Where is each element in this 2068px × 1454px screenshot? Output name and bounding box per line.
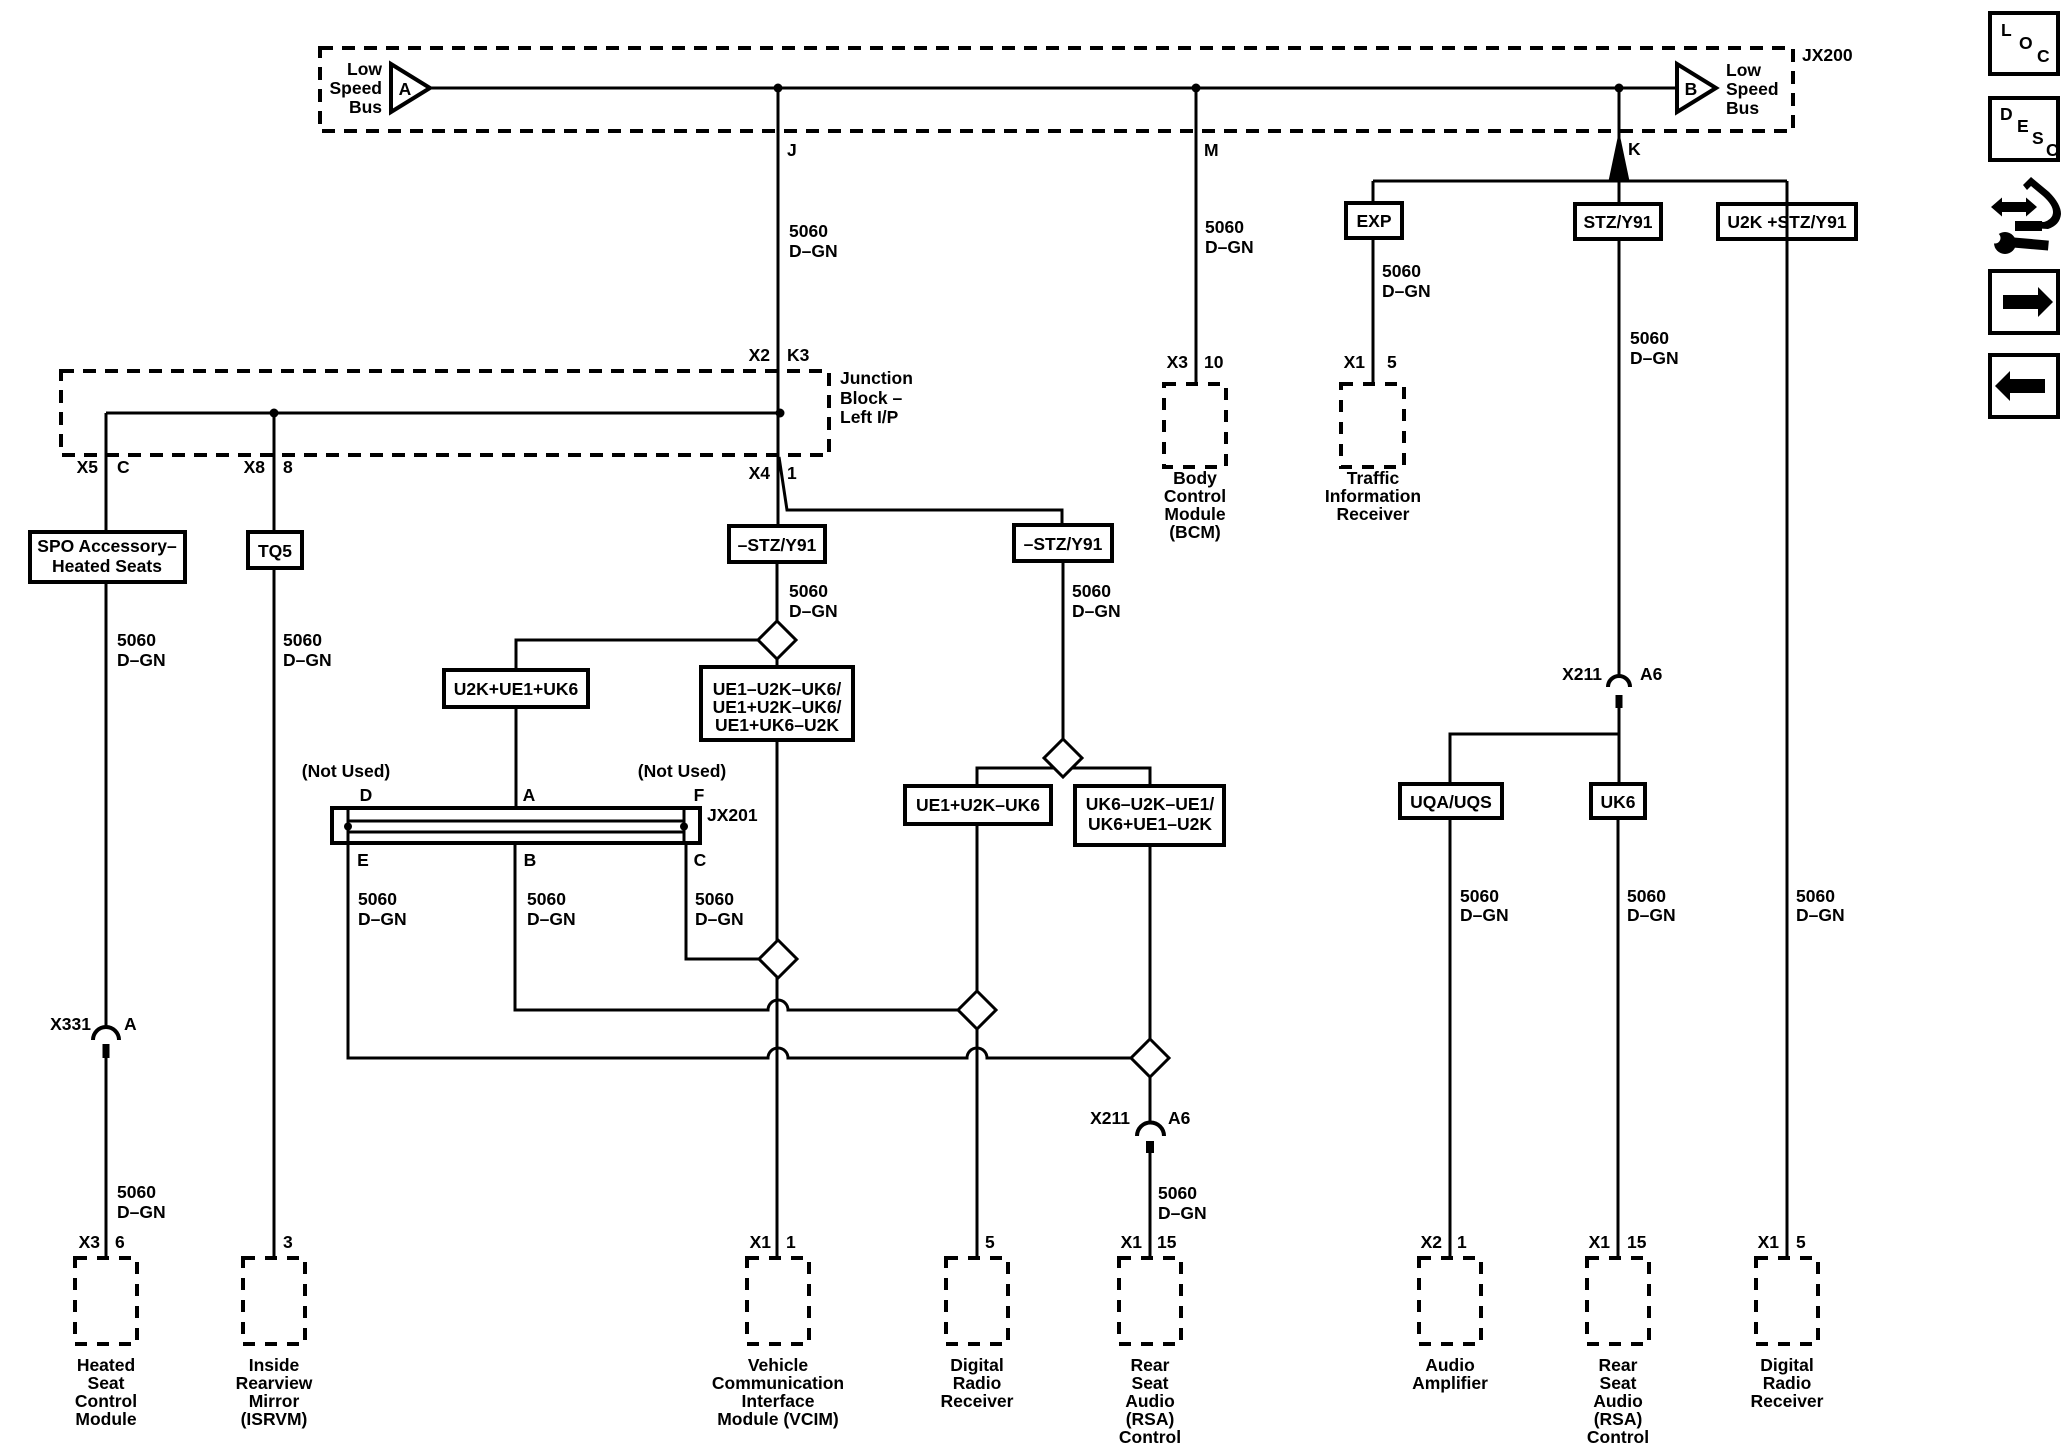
- svg-text:C: C: [2037, 46, 2050, 66]
- module box Heated Seat Control Module: [75, 1258, 137, 1344]
- svg-text:D–GN: D–GN: [1460, 905, 1509, 925]
- connector label box UE1-U2K-UK6 / UE1+U2K-UK6 / UE1+UK6-U2K: [701, 667, 853, 740]
- svg-text:C: C: [117, 457, 130, 477]
- svg-text:D–GN: D–GN: [283, 650, 332, 670]
- svg-text:D–GN: D–GN: [1796, 905, 1845, 925]
- module box Traffic Information Receiver: [1341, 384, 1404, 467]
- svg-text:(RSA): (RSA): [1594, 1409, 1643, 1429]
- wire RSA1 upper drop: [1149, 845, 1152, 1122]
- svg-text:D: D: [360, 785, 373, 805]
- svg-text:X4: X4: [749, 463, 771, 483]
- svg-text:M: M: [1204, 140, 1219, 160]
- svg-text:UE1+U2K–UK6: UE1+U2K–UK6: [916, 795, 1040, 815]
- wire DRR1 drop: [976, 824, 979, 1258]
- inline connector X211/A6 (K line): [1608, 676, 1630, 687]
- wire from right STZ box to splice diamond S2: [1062, 561, 1065, 739]
- svg-text:(Not Used): (Not Used): [302, 761, 390, 781]
- svg-text:5060: 5060: [1627, 886, 1666, 906]
- svg-text:Seat: Seat: [1600, 1373, 1637, 1393]
- wire SPO lower drop: [105, 582, 108, 1027]
- svg-text:A: A: [399, 79, 412, 99]
- wire K branch horizontal: [1373, 180, 1787, 183]
- svg-text:X3: X3: [79, 1232, 101, 1252]
- icon diagnostic bent outline: [2023, 177, 2061, 229]
- module box Digital Radio Receiver (center): [946, 1258, 1008, 1344]
- connector label box U2K +STZ/Y91: [1718, 204, 1856, 239]
- wire B from JX201 to splice diamond S4 with hop: [515, 843, 958, 1010]
- wire TQ5 lower drop to ISRVM: [273, 568, 276, 1258]
- svg-text:Radio: Radio: [1763, 1373, 1812, 1393]
- svg-text:Control: Control: [1587, 1427, 1649, 1447]
- splice diamond S3: [759, 940, 797, 978]
- wire UK6 drop to RSA2: [1617, 818, 1620, 1258]
- svg-text:5060: 5060: [789, 221, 828, 241]
- svg-text:Body: Body: [1173, 468, 1217, 488]
- connector label box UQA/UQS: [1400, 784, 1502, 818]
- wire from left STZ box to splice diamond: [776, 562, 779, 621]
- svg-text:Speed: Speed: [329, 78, 382, 98]
- connector label box TQ5: [248, 532, 302, 568]
- svg-text:X1: X1: [1121, 1232, 1143, 1252]
- wire J drop from bus to junction block: [777, 88, 780, 526]
- svg-text:(Not Used): (Not Used): [638, 761, 726, 781]
- svg-text:D: D: [2000, 104, 2013, 124]
- svg-text:Seat: Seat: [1132, 1373, 1169, 1393]
- connector label box U2K+UE1+UK6: [444, 670, 588, 707]
- svg-text:B: B: [1685, 79, 1698, 99]
- svg-text:S: S: [2032, 128, 2044, 148]
- splice diamond S2: [1044, 739, 1082, 777]
- svg-text:Low: Low: [1726, 60, 1761, 80]
- wire A drop from U2K+UE1+UK6 into JX201: [515, 707, 518, 808]
- svg-text:Radio: Radio: [953, 1373, 1002, 1393]
- module box Digital Radio Receiver (right): [1756, 1258, 1818, 1344]
- module box Rear Seat Audio Control (center): [1119, 1258, 1181, 1344]
- svg-text:5060: 5060: [1796, 886, 1835, 906]
- wire X5 drop to SPO box: [105, 413, 108, 532]
- svg-text:JX201: JX201: [707, 805, 758, 825]
- wire RSA1 lower drop: [1149, 1153, 1152, 1258]
- icon back arrow box: [1990, 355, 2058, 417]
- svg-text:X211: X211: [1090, 1108, 1130, 1128]
- module box Audio Amplifier: [1419, 1258, 1481, 1344]
- svg-text:X5: X5: [77, 457, 99, 477]
- svg-text:8: 8: [283, 457, 293, 477]
- svg-text:Heated Seats: Heated Seats: [52, 556, 162, 576]
- svg-text:Interface: Interface: [742, 1391, 815, 1411]
- svg-text:TQ5: TQ5: [258, 541, 292, 561]
- svg-text:X2: X2: [749, 345, 771, 365]
- module box Vehicle Communication Interface Module: [747, 1258, 809, 1344]
- svg-text:A: A: [124, 1014, 137, 1034]
- svg-text:JX200: JX200: [1802, 45, 1853, 65]
- wire U2K drop to DRR2: [1786, 181, 1789, 1258]
- svg-text:D–GN: D–GN: [117, 1202, 166, 1222]
- junction dot J tap: [776, 409, 785, 418]
- svg-text:X8: X8: [244, 457, 266, 477]
- svg-text:(ISRVM): (ISRVM): [241, 1409, 308, 1429]
- svg-text:EXP: EXP: [1356, 211, 1391, 231]
- svg-text:C: C: [694, 850, 707, 870]
- svg-text:5060: 5060: [695, 889, 734, 909]
- svg-text:Rear: Rear: [1599, 1355, 1638, 1375]
- svg-text:5060: 5060: [358, 889, 397, 909]
- svg-text:6: 6: [115, 1232, 125, 1252]
- svg-text:Receiver: Receiver: [1337, 504, 1410, 524]
- svg-text:E: E: [2017, 116, 2029, 136]
- svg-text:UK6: UK6: [1600, 792, 1635, 812]
- inline connector X331/A: [93, 1027, 119, 1040]
- svg-text:X1: X1: [750, 1232, 772, 1252]
- svg-text:5: 5: [1796, 1232, 1806, 1252]
- wire low speed bus: [430, 87, 1677, 90]
- svg-text:5060: 5060: [1630, 328, 1669, 348]
- wire M drop from bus to BCM: [1195, 88, 1198, 384]
- svg-text:Module: Module: [75, 1409, 137, 1429]
- svg-text:D–GN: D–GN: [1630, 348, 1679, 368]
- wire UQA drop to Audio Amplifier: [1449, 818, 1452, 1258]
- svg-text:Inside: Inside: [249, 1355, 300, 1375]
- splice diamond S5: [1131, 1039, 1169, 1077]
- wire junction block internal bus: [106, 412, 780, 415]
- inline connector X211/A6 (RSA): [1137, 1123, 1164, 1137]
- wire K drop from bus through arrow: [1618, 88, 1621, 676]
- svg-text:SPO Accessory–: SPO Accessory–: [37, 536, 177, 556]
- svg-text:UK6+UE1–U2K: UK6+UE1–U2K: [1088, 814, 1212, 834]
- svg-text:X1: X1: [1344, 352, 1366, 372]
- svg-text:–STZ/Y91: –STZ/Y91: [738, 535, 817, 555]
- junction dot K on bus: [1615, 84, 1624, 93]
- svg-text:D–GN: D–GN: [695, 909, 744, 929]
- svg-text:X211: X211: [1562, 664, 1602, 684]
- wire K lower drop to UK6: [1618, 708, 1621, 784]
- svg-text:Speed: Speed: [1726, 79, 1779, 99]
- svg-text:5060: 5060: [789, 581, 828, 601]
- svg-text:K: K: [1628, 139, 1641, 159]
- svg-text:Rear: Rear: [1131, 1355, 1170, 1375]
- svg-text:Vehicle: Vehicle: [748, 1355, 809, 1375]
- svg-text:Amplifier: Amplifier: [1412, 1373, 1488, 1393]
- wire branch to U2K+UE1+UK6: [516, 640, 758, 671]
- svg-text:D–GN: D–GN: [1205, 237, 1254, 257]
- connector label box EXP: [1346, 203, 1402, 238]
- icon forward arrow box: [1990, 271, 2058, 333]
- svg-text:Audio: Audio: [1425, 1355, 1475, 1375]
- svg-text:Communication: Communication: [712, 1373, 844, 1393]
- svg-text:UE1+U2K–UK6/: UE1+U2K–UK6/: [713, 697, 842, 717]
- svg-text:A6: A6: [1640, 664, 1663, 684]
- svg-text:UE1+UK6–U2K: UE1+UK6–U2K: [715, 715, 839, 735]
- module box Body Control Module: [1164, 384, 1226, 467]
- connector label box UK6-U2K-UE1 / UK6+UE1-U2K: [1075, 786, 1224, 845]
- icon LOC box: [1990, 13, 2058, 74]
- svg-text:Digital: Digital: [1760, 1355, 1813, 1375]
- junction dot JX201 pin F/C: [680, 823, 688, 831]
- svg-text:K3: K3: [787, 345, 810, 365]
- svg-text:10: 10: [1204, 352, 1224, 372]
- svg-text:5: 5: [985, 1232, 995, 1252]
- junction dot JX201 pin D/E: [344, 823, 352, 831]
- svg-text:3: 3: [283, 1232, 293, 1252]
- svg-text:5060: 5060: [283, 630, 322, 650]
- svg-text:5060: 5060: [117, 1182, 156, 1202]
- svg-text:U2K+UE1+UK6: U2K+UE1+UK6: [454, 679, 579, 699]
- splice diamond S4: [958, 991, 996, 1029]
- svg-text:A: A: [523, 785, 536, 805]
- svg-text:Traffic: Traffic: [1347, 468, 1400, 488]
- connector JX201 body: [332, 808, 700, 843]
- svg-text:Module (VCIM): Module (VCIM): [717, 1409, 839, 1429]
- svg-text:Bus: Bus: [349, 97, 382, 117]
- svg-text:D–GN: D–GN: [1627, 905, 1676, 925]
- icon diagnostic double arrow: [1991, 198, 2037, 217]
- icon DESC box: [1990, 98, 2058, 160]
- svg-text:Control: Control: [1119, 1427, 1181, 1447]
- svg-text:UK6–U2K–UE1/: UK6–U2K–UE1/: [1086, 794, 1215, 814]
- svg-text:5060: 5060: [117, 630, 156, 650]
- wire EXP drop to receiver: [1372, 238, 1375, 384]
- svg-text:X331: X331: [50, 1014, 91, 1034]
- svg-text:Control: Control: [75, 1391, 137, 1411]
- svg-text:X3: X3: [1167, 352, 1189, 372]
- wire heated seat drop: [105, 1058, 108, 1258]
- icon diagnostic bar: [2015, 221, 2042, 231]
- svg-text:(BCM): (BCM): [1169, 522, 1221, 542]
- svg-text:STZ/Y91: STZ/Y91: [1583, 212, 1652, 232]
- svg-text:Information: Information: [1325, 486, 1421, 506]
- svg-text:Rearview: Rearview: [236, 1373, 313, 1393]
- svg-text:5060: 5060: [1205, 217, 1244, 237]
- svg-text:Seat: Seat: [88, 1373, 125, 1393]
- svg-text:Left I/P: Left I/P: [840, 407, 899, 427]
- svg-text:L: L: [2001, 20, 2012, 40]
- svg-text:X1: X1: [1589, 1232, 1611, 1252]
- wire E from JX201 to splice diamond S5 with hops: [348, 843, 1131, 1058]
- svg-text:5060: 5060: [1072, 581, 1111, 601]
- svg-text:F: F: [694, 785, 705, 805]
- arrow into bus at K: [1609, 131, 1630, 181]
- connector label box UK6: [1591, 784, 1645, 818]
- svg-text:X2: X2: [1421, 1232, 1443, 1252]
- wire EXP stub: [1372, 181, 1375, 203]
- wire X4 branch to right -STZ/Y91: [779, 457, 1062, 525]
- splice diamond S1: [758, 621, 796, 659]
- connector label box -STZ/Y91 (right): [1014, 525, 1112, 561]
- wire S2 right branch: [1072, 768, 1150, 786]
- connector label box -STZ/Y91 (left): [729, 526, 825, 562]
- svg-text:J: J: [787, 140, 797, 160]
- svg-text:Mirror: Mirror: [249, 1391, 300, 1411]
- junction block left I/P dashed box: [61, 371, 829, 455]
- svg-text:Control: Control: [1164, 486, 1226, 506]
- svg-text:Junction: Junction: [840, 368, 913, 388]
- svg-text:B: B: [524, 850, 537, 870]
- svg-text:Block –: Block –: [840, 388, 903, 408]
- wire VCIM main drop: [776, 740, 779, 1258]
- svg-text:–STZ/Y91: –STZ/Y91: [1024, 534, 1103, 554]
- svg-text:Module: Module: [1164, 504, 1226, 524]
- svg-text:5060: 5060: [1382, 261, 1421, 281]
- svg-text:15: 15: [1157, 1232, 1177, 1252]
- svg-text:D–GN: D–GN: [1382, 281, 1431, 301]
- junction dot X8 tap: [270, 409, 279, 418]
- svg-text:O: O: [2019, 33, 2033, 53]
- svg-text:5060: 5060: [527, 889, 566, 909]
- svg-text:Audio: Audio: [1125, 1391, 1175, 1411]
- svg-text:D–GN: D–GN: [1072, 601, 1121, 621]
- svg-text:A6: A6: [1168, 1108, 1191, 1128]
- icon wrench: [1990, 232, 2049, 254]
- JX200 low speed bus dashed box: [320, 48, 1793, 131]
- svg-text:Audio: Audio: [1593, 1391, 1643, 1411]
- junction dot J on bus: [774, 84, 783, 93]
- svg-text:D–GN: D–GN: [789, 601, 838, 621]
- svg-text:Low: Low: [347, 59, 382, 79]
- svg-text:5060: 5060: [1460, 886, 1499, 906]
- node A bus driver triangle: [391, 64, 430, 112]
- wire C from JX201 to splice diamond S3: [686, 843, 759, 959]
- svg-text:UQA/UQS: UQA/UQS: [1410, 792, 1492, 812]
- svg-text:Receiver: Receiver: [941, 1391, 1014, 1411]
- svg-text:1: 1: [787, 463, 797, 483]
- svg-text:D–GN: D–GN: [1158, 1203, 1207, 1223]
- junction dot M on bus: [1192, 84, 1201, 93]
- svg-text:Bus: Bus: [1726, 98, 1759, 118]
- svg-text:D–GN: D–GN: [789, 241, 838, 261]
- svg-text:1: 1: [786, 1232, 796, 1252]
- node B bus driver triangle: [1677, 64, 1716, 112]
- wire diamond S1 to option box: [776, 659, 779, 669]
- svg-text:15: 15: [1627, 1232, 1647, 1252]
- svg-text:D–GN: D–GN: [117, 650, 166, 670]
- connector label box UE1+U2K-UK6: [905, 786, 1051, 824]
- svg-text:1: 1: [1457, 1232, 1467, 1252]
- svg-text:E: E: [357, 850, 369, 870]
- connector label box SPO Accessory-Heated Seats: [30, 532, 185, 582]
- svg-text:C: C: [2046, 140, 2059, 160]
- svg-text:D–GN: D–GN: [358, 909, 407, 929]
- svg-text:UE1–U2K–UK6/: UE1–U2K–UK6/: [713, 679, 842, 699]
- wire S2 left branch: [977, 768, 1054, 786]
- module box Inside Rearview Mirror: [243, 1258, 305, 1344]
- module box Rear Seat Audio Control (right): [1587, 1258, 1649, 1344]
- wire branch to UQA/UQS: [1450, 734, 1619, 784]
- svg-text:5: 5: [1387, 352, 1397, 372]
- svg-text:Receiver: Receiver: [1751, 1391, 1824, 1411]
- svg-text:X1: X1: [1758, 1232, 1780, 1252]
- connector label box STZ/Y91: [1575, 204, 1661, 239]
- svg-text:5060: 5060: [1158, 1183, 1197, 1203]
- svg-text:D–GN: D–GN: [527, 909, 576, 929]
- wire X8 drop to TQ5 box: [273, 413, 276, 532]
- svg-text:Heated: Heated: [77, 1355, 135, 1375]
- svg-text:Digital: Digital: [950, 1355, 1003, 1375]
- svg-text:(RSA): (RSA): [1126, 1409, 1175, 1429]
